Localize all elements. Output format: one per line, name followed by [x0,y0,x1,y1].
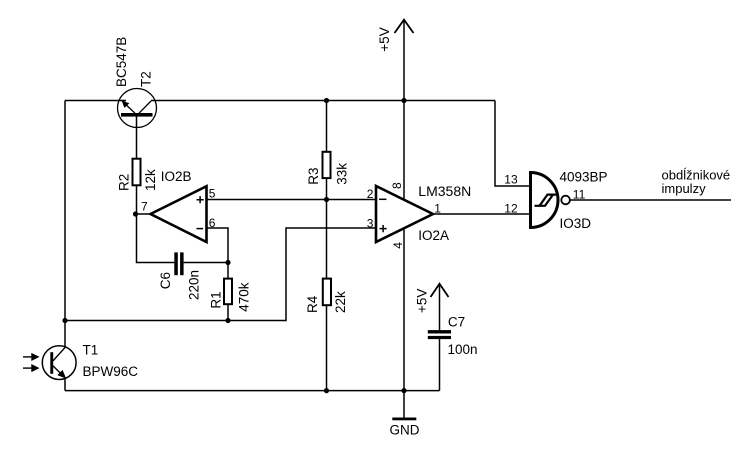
svg-text:4: 4 [391,242,405,249]
svg-text:100n: 100n [448,342,478,357]
svg-text:8: 8 [390,182,404,189]
svg-text:+5V: +5V [377,27,392,51]
svg-text:33k: 33k [334,163,349,185]
svg-text:5: 5 [209,187,216,201]
svg-text:R4: R4 [305,295,320,313]
svg-text:470k: 470k [236,282,251,312]
svg-text:6: 6 [209,216,216,230]
svg-text:IO3D: IO3D [560,216,592,231]
svg-text:2: 2 [367,187,374,201]
svg-text:220n: 220n [187,270,202,300]
svg-text:22k: 22k [333,291,348,313]
svg-text:13: 13 [504,172,518,186]
svg-text:C6: C6 [158,272,173,289]
svg-text:R3: R3 [306,168,321,185]
svg-text:R2: R2 [117,174,132,191]
svg-text:LM358N: LM358N [418,183,471,199]
svg-text:4093BP: 4093BP [560,169,608,184]
svg-text:BPW96C: BPW96C [83,364,139,379]
svg-text:IO2A: IO2A [418,228,449,243]
svg-text:GND: GND [390,422,420,437]
svg-text:12k: 12k [143,169,158,191]
svg-text:BC547B: BC547B [114,37,129,87]
svg-text:1: 1 [434,202,441,216]
svg-text:C7: C7 [448,315,465,330]
svg-text:T1: T1 [83,343,99,358]
svg-text:12: 12 [504,202,518,216]
svg-text:IO2B: IO2B [161,169,192,184]
svg-text:impulzy: impulzy [662,181,707,196]
svg-text:+5V: +5V [414,289,429,313]
svg-text:R1: R1 [209,291,224,308]
svg-text:11: 11 [573,188,586,202]
svg-text:T2: T2 [139,71,154,87]
svg-text:3: 3 [367,216,374,230]
svg-text:7: 7 [141,200,148,214]
